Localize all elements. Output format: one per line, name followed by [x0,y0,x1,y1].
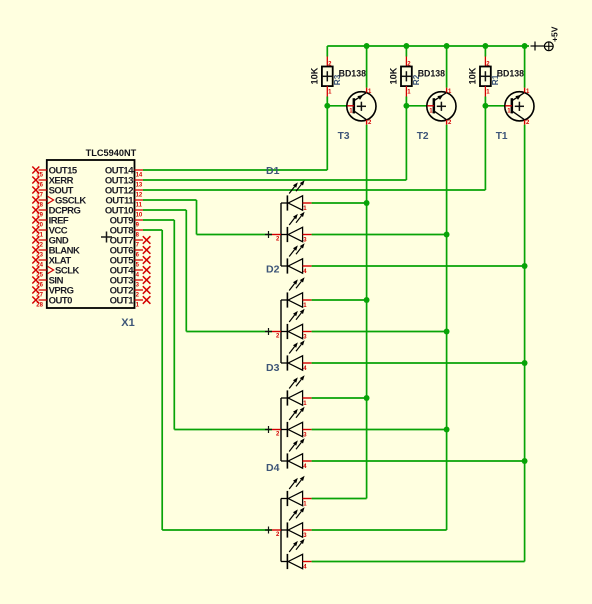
LED D2.2 [281,309,312,341]
wire D3 pin4 to column [312,460,525,462]
svg-text:14: 14 [136,173,143,179]
wire +5V to R3 [326,46,328,57]
svg-text:TLC5940NT: TLC5940NT [86,148,137,158]
wire OUT12 to T1 base node [143,106,485,190]
junction column x524 row 363 [522,360,528,366]
svg-text:10: 10 [136,213,143,219]
IC value label TLC5940NT [86,148,137,158]
wire OUT9 to D3 common [143,220,272,430]
svg-text:12: 12 [136,193,143,199]
wire D2 pin4 to column [312,362,525,364]
svg-text:10K: 10K [468,67,478,84]
IC pin 14 OUT14 [105,166,143,179]
label BD138 of T1 [497,69,524,79]
IC pin 25 SCLK (unconnected) [32,266,79,279]
LED D1.1 [281,180,312,212]
junction column x524 row 266 [522,263,528,269]
resistor R2 10K [389,57,421,97]
LED D4.2 [281,507,312,539]
wire T3 collector column [366,125,368,499]
wire OUT14 to T3 base node [143,106,327,170]
IC pin 28 OUT0 (unconnected) [32,296,72,309]
svg-text:OUT1: OUT1 [110,296,135,307]
wire R2 to T2 base node [406,97,427,106]
LED array D1 bus [280,203,282,266]
svg-text:BD138: BD138 [497,69,524,79]
label D2 [266,264,280,276]
resistor R3 10K [310,57,342,97]
LED D3.1 [281,375,312,407]
svg-text:T3: T3 [338,131,350,142]
junction column x446 row 234 [444,232,450,238]
IC U1 TLC5940NT box [47,160,135,308]
IC pin 3 OUT3 [110,276,151,289]
svg-text:+5V: +5V [550,26,560,42]
IC pin 11 OUT11 [105,196,143,209]
IC pin 22 GND (unconnected) [32,236,69,249]
LED D1.3 [281,243,312,275]
wire D3 pin1 to column [312,397,367,399]
label D1 [266,165,280,177]
wire D2 pin3 to column [312,331,447,333]
IC pin 23 BLANK (unconnected) [32,246,80,259]
svg-text:10K: 10K [389,67,399,84]
wire +5V rail [327,45,529,47]
svg-text:11: 11 [136,203,143,209]
svg-text:28: 28 [36,303,43,309]
wire D2 pin1 to column [312,299,367,301]
transistor T3 BD138 [347,88,376,127]
wire D1 pin4 to column [312,265,525,267]
LED array D4 bus [280,499,282,562]
label T3 [338,131,350,142]
IC pin 20 IREF (unconnected) [32,216,69,229]
wire OUT13 to T2 base node [143,106,406,180]
IC pin 18 GSCLK (unconnected) [32,196,86,209]
D2 common pin 2 [265,328,281,340]
label BD138 of T2 [418,69,445,79]
wire OUT10 to D2 common [143,210,272,332]
LED array D2 bus [280,300,282,363]
label T2 [417,131,429,142]
LED D2.3 [281,340,312,372]
junction rail x524 [522,43,528,49]
svg-text:D4: D4 [266,462,280,474]
junction column x366 row 300 [364,297,370,303]
wire R1 to T1 base node [485,97,505,106]
D4 common pin 2 [265,527,281,539]
wire D3 pin3 to column [312,429,447,431]
label D3 [266,362,280,374]
D1 common pin 2 [265,231,281,243]
IC origin cross [101,232,112,243]
wire R3 to T3 base node [327,97,347,106]
IC pin 9 OUT9 [110,216,143,229]
wire +5V to R2 [405,46,407,57]
label BD138 of T3 [339,69,366,79]
IC pin 6 OUT6 [110,246,151,259]
IC pin 16 XERR (unconnected) [32,176,73,189]
svg-text:D2: D2 [266,264,280,276]
IC pin 27 VPRG (unconnected) [32,286,73,299]
D3 common pin 2 [265,426,281,438]
junction T3 base node [324,103,330,109]
label D4 [266,462,280,474]
wire D4 pin4 to column [312,561,525,563]
svg-text:T2: T2 [417,131,429,142]
IC pin 5 OUT5 [110,256,151,269]
svg-text:10K: 10K [310,67,320,84]
junction column x446 row 429 [444,427,450,433]
IC pin 21 VCC (unconnected) [32,226,67,239]
junction rail x406 [403,43,409,49]
IC pin 7 OUT7 [110,236,151,249]
svg-text:T1: T1 [496,131,508,142]
wire T2 collector column [446,125,448,530]
IC pin 8 OUT8 [110,226,143,239]
IC pin 4 OUT4 [110,266,151,279]
LED D4.3 [281,539,312,571]
wire T3 emitter to rail [366,46,368,88]
IC pin 17 SOUT (unconnected) [32,186,73,199]
label T1 [496,131,508,142]
LED array D3 bus [280,398,282,461]
junction T1 base node [482,103,488,109]
LED D4.1 [281,476,312,508]
junction T2 base node [403,103,409,109]
junction column x366 row 203 [364,200,370,206]
wire OUT8 to D4 common [143,230,272,530]
wire T1 collector column [524,125,526,562]
svg-text:13: 13 [136,183,143,189]
IC pin 24 XLAT (unconnected) [32,256,71,269]
transistor T1 BD138 [505,88,534,127]
IC pin 13 OUT13 [105,176,143,189]
wire OUT11 to D1 common [143,200,272,235]
svg-text:BD138: BD138 [339,69,366,79]
LED D3.2 [281,407,312,439]
supply +5V symbol [531,26,560,50]
IC pin 1 OUT1 [110,296,151,309]
svg-text:X1: X1 [121,317,134,329]
wire D1 pin3 to column [312,234,447,236]
IC pin 26 SIN (unconnected) [32,276,63,289]
svg-text:D1: D1 [266,165,280,177]
LED D2.1 [281,277,312,309]
junction column x524 row 461 [522,458,528,464]
LED D1.2 [281,212,312,244]
IC pin 2 OUT2 [110,286,151,299]
wire D4 pin3 to column [312,529,447,531]
wire T2 emitter to rail [446,46,448,88]
svg-text:OUT0: OUT0 [49,296,73,307]
LED D3.3 [281,438,312,470]
transistor T2 BD138 [427,88,456,127]
IC name label X1 [121,317,134,329]
wire D4 pin1 to column [312,498,367,500]
wire D1 pin1 to column [312,202,367,204]
IC pin 15 OUT15 (unconnected) [32,166,78,179]
junction column x366 row 398 [364,395,370,401]
wire T1 emitter to rail [524,46,526,88]
junction rail x366 [364,43,370,49]
svg-text:BD138: BD138 [418,69,445,79]
svg-text:D3: D3 [266,362,280,374]
junction column x446 row 331 [444,329,450,335]
resistor R1 10K [468,57,500,97]
wire +5V to R1 [484,46,486,57]
junction rail x446 [444,43,450,49]
IC pin 10 OUT10 [105,206,143,219]
IC pin 19 DCPRG (unconnected) [32,206,80,219]
junction rail x485 [482,43,488,49]
IC pin 12 OUT12 [105,186,143,199]
